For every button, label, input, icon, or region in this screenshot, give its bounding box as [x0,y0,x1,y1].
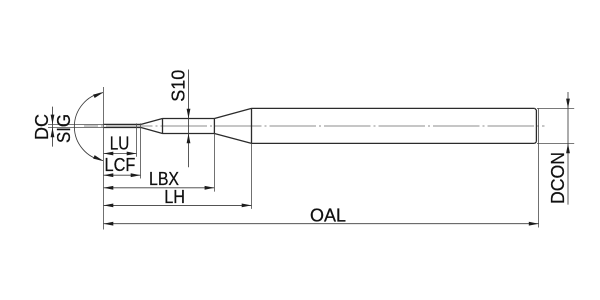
LU extension line [136,123,138,156]
dimension LH [104,204,252,206]
tool outline [104,108,537,143]
dimension LCF [104,174,141,176]
DCON extension lines [537,108,574,143]
taper neck to shank [214,108,251,143]
dimension OAL [104,223,539,225]
LH extension line [251,143,253,209]
extension lines [48,87,574,230]
svg-text:SIG: SIG [54,114,74,143]
svg-text:LH: LH [164,187,185,207]
OAL / shank end extension line [538,109,540,228]
dimension SIG (point angle arc) [74,93,103,161]
LBX extension line [213,134,215,192]
svg-text:OAL: OAL [310,205,346,225]
shank end chamfer and end face [535,108,537,143]
centerline (tool axis) [84,125,545,127]
tip extension line [103,87,105,230]
dimension LBX [104,187,215,189]
dimension S10 (neck diameter) [188,70,190,168]
svg-text:S10: S10 [168,70,188,102]
svg-text:LU: LU [110,133,130,153]
taper tip to neck [141,119,163,134]
shank [252,108,535,143]
neck section S10 [163,119,215,134]
dimension LU [104,153,137,155]
LCF extension line [140,123,142,178]
tip (cutting diameter) [104,124,142,127]
DC extension lines [48,124,104,127]
dimension DC (cutting diameter) [52,107,54,147]
svg-text:DCON: DCON [548,152,568,204]
svg-text:LCF: LCF [105,155,136,175]
svg-text:DC: DC [32,114,52,140]
dimension DCON (shank diameter) [567,92,569,205]
